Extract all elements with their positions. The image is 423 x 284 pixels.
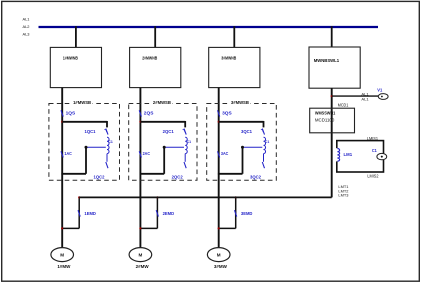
svg-text:1EMD: 1EMD	[84, 211, 96, 216]
svg-text:3QS: 3QS	[222, 110, 232, 115]
svg-text:AL1: AL1	[23, 17, 31, 22]
svg-text:M: M	[60, 252, 64, 257]
svg-text:2#MW: 2#MW	[136, 264, 150, 269]
svg-text:2QC1: 2QC1	[163, 129, 175, 134]
svg-text:MCD1100: MCD1100	[315, 117, 335, 122]
svg-text:C1: C1	[187, 139, 192, 144]
svg-text:LMIS1: LMIS1	[367, 136, 379, 141]
svg-text:1QC1: 1QC1	[85, 129, 97, 134]
svg-text:3#MW: 3#MW	[214, 264, 228, 269]
svg-text:C1: C1	[265, 139, 270, 144]
svg-text:2QC2: 2QC2	[172, 175, 184, 180]
svg-text:3#MWNB: 3#MWNB	[221, 56, 236, 61]
svg-text:LMT3: LMT3	[338, 193, 349, 198]
svg-text:3QC2: 3QC2	[250, 175, 262, 180]
svg-text:2#MWSB: 2#MWSB	[153, 100, 171, 105]
svg-text:C1: C1	[108, 139, 113, 144]
svg-text:AL2: AL2	[23, 24, 31, 29]
svg-text:M: M	[138, 252, 142, 257]
svg-text:3#MWSB: 3#MWSB	[231, 100, 249, 105]
svg-text:3AC: 3AC	[221, 151, 228, 156]
svg-text:MWNBSWL1: MWNBSWL1	[314, 58, 340, 63]
svg-text:1AC: 1AC	[64, 151, 71, 156]
svg-text:2#MWNB: 2#MWNB	[142, 56, 157, 61]
svg-text:LM1: LM1	[344, 152, 353, 157]
svg-text:WMSSWH1: WMSSWH1	[315, 110, 336, 115]
svg-text:1QC2: 1QC2	[94, 175, 106, 180]
svg-text:3EMD: 3EMD	[241, 211, 253, 216]
svg-text:M: M	[217, 252, 221, 257]
svg-text:1QS: 1QS	[66, 110, 76, 115]
svg-text:LMIS2: LMIS2	[367, 174, 379, 179]
svg-text:3QC1: 3QC1	[241, 129, 253, 134]
svg-text:AL1: AL1	[361, 96, 369, 101]
svg-text:MCD1: MCD1	[338, 103, 349, 108]
svg-text:V1: V1	[377, 88, 383, 93]
svg-text:1#MW: 1#MW	[57, 264, 71, 269]
svg-text:2EMD: 2EMD	[163, 211, 175, 216]
svg-text:AL3: AL3	[23, 32, 31, 37]
svg-text:2AC: 2AC	[143, 151, 150, 156]
svg-text:C1: C1	[372, 148, 378, 153]
svg-text:1#MWNB: 1#MWNB	[63, 56, 78, 61]
svg-text:2QS: 2QS	[144, 110, 154, 115]
svg-text:1#MWSB: 1#MWSB	[73, 100, 91, 105]
